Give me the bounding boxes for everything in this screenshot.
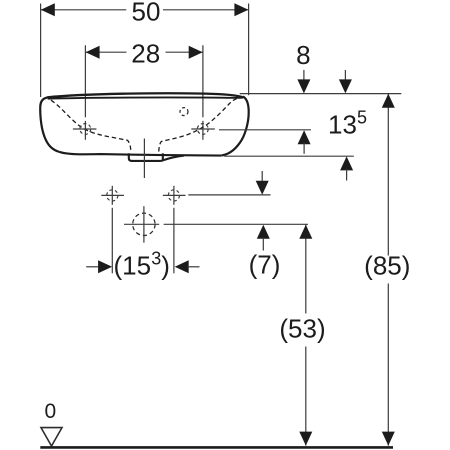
dimension (7) down arrow xyxy=(261,171,263,182)
fixing hole right dashed circle xyxy=(168,190,179,201)
dimension 8 down arrow xyxy=(303,70,305,81)
dimension 13.5 down arrow xyxy=(344,70,346,81)
tap hole right dashed circle xyxy=(197,124,208,135)
dimension 28 arrow left xyxy=(86,46,100,59)
drain pipe hole dashed circle xyxy=(133,213,155,235)
dimension 50 extension line right xyxy=(248,4,250,96)
dimension 50 arrow left xyxy=(41,3,55,16)
fixing hole left dashed circle xyxy=(107,190,118,201)
fixing hole right cross vertical xyxy=(173,186,175,205)
dimension (85) down arrow xyxy=(382,432,395,446)
drain pipe hole vertical centerline xyxy=(143,206,145,243)
fixing hole left cross horizontal xyxy=(101,194,124,196)
floor line xyxy=(40,446,393,449)
dimension (53) line upper xyxy=(305,225,307,314)
dimension 28 arrow right xyxy=(189,46,203,59)
svg-text:8: 8 xyxy=(296,40,310,70)
fixing hole right cross horizontal xyxy=(163,194,186,196)
dimension (15.3) right arrow and tail xyxy=(175,260,189,273)
dimension 50 arrow right xyxy=(234,3,248,16)
svg-text:(53): (53) xyxy=(279,314,325,344)
tap hole cross right arm xyxy=(191,128,215,130)
dimension (15.3) extension line right xyxy=(173,208,175,273)
drain trap box xyxy=(129,153,184,161)
dimension 50 line xyxy=(41,9,249,11)
dimension 13.5 up arrow xyxy=(340,156,353,170)
svg-text:50: 50 xyxy=(132,0,161,27)
dimension (15.3) extension line left xyxy=(111,208,113,273)
dimension 28 extension / tap centerline left xyxy=(84,45,86,140)
svg-text:5: 5 xyxy=(357,108,367,128)
svg-text:): ) xyxy=(161,250,170,280)
dimension (85) line lower xyxy=(387,284,389,446)
dimension (85) line upper xyxy=(387,94,389,256)
svg-text:28: 28 xyxy=(131,38,160,68)
drain pipe hole horizontal centerline xyxy=(124,223,159,225)
dimension 28 extension / tap centerline right xyxy=(202,45,204,140)
basin bottom edge xyxy=(60,152,222,156)
level line C basin underside extended xyxy=(224,155,353,157)
dimension (53) line lower xyxy=(305,347,307,446)
basin left outline xyxy=(40,98,59,152)
level line B tap level extended xyxy=(219,129,311,131)
basin inner bowl hidden edge right xyxy=(159,97,242,151)
basin rim lower line xyxy=(48,97,244,98)
basin rim top line xyxy=(47,93,243,97)
dimension (7) up arrow xyxy=(257,225,270,239)
level line A rim top extended xyxy=(240,93,402,95)
drain trap box right edge xyxy=(162,153,164,159)
svg-text:0: 0 xyxy=(44,400,56,423)
svg-text:(7): (7) xyxy=(249,250,281,280)
svg-text:(15: (15 xyxy=(114,250,152,280)
basin inner bowl hidden edge left xyxy=(51,100,131,151)
dimension (53) up arrow xyxy=(299,225,312,239)
tap hole cross left arm xyxy=(73,128,97,130)
dimension 8 up arrow xyxy=(298,130,311,144)
fixing hole level line extended right xyxy=(188,194,270,196)
dimension (85) up arrow xyxy=(382,94,395,108)
overflow hole dashed circle xyxy=(180,108,188,116)
dimension (15.3) left arrow and tail xyxy=(86,266,99,268)
svg-text:3: 3 xyxy=(151,249,161,269)
fixing hole left cross vertical xyxy=(111,186,113,205)
svg-text:(85): (85) xyxy=(364,250,410,280)
dimension 50 extension line left xyxy=(40,4,42,98)
svg-text:13: 13 xyxy=(328,109,357,139)
datum triangle xyxy=(41,428,62,446)
basin right outline xyxy=(221,97,248,156)
drain centerline xyxy=(143,139,145,179)
dimension (53) down arrow xyxy=(299,432,312,446)
dimension 28 line xyxy=(85,51,202,53)
tap hole left dashed circle xyxy=(80,124,91,135)
level line D drain level extended right xyxy=(164,223,308,225)
